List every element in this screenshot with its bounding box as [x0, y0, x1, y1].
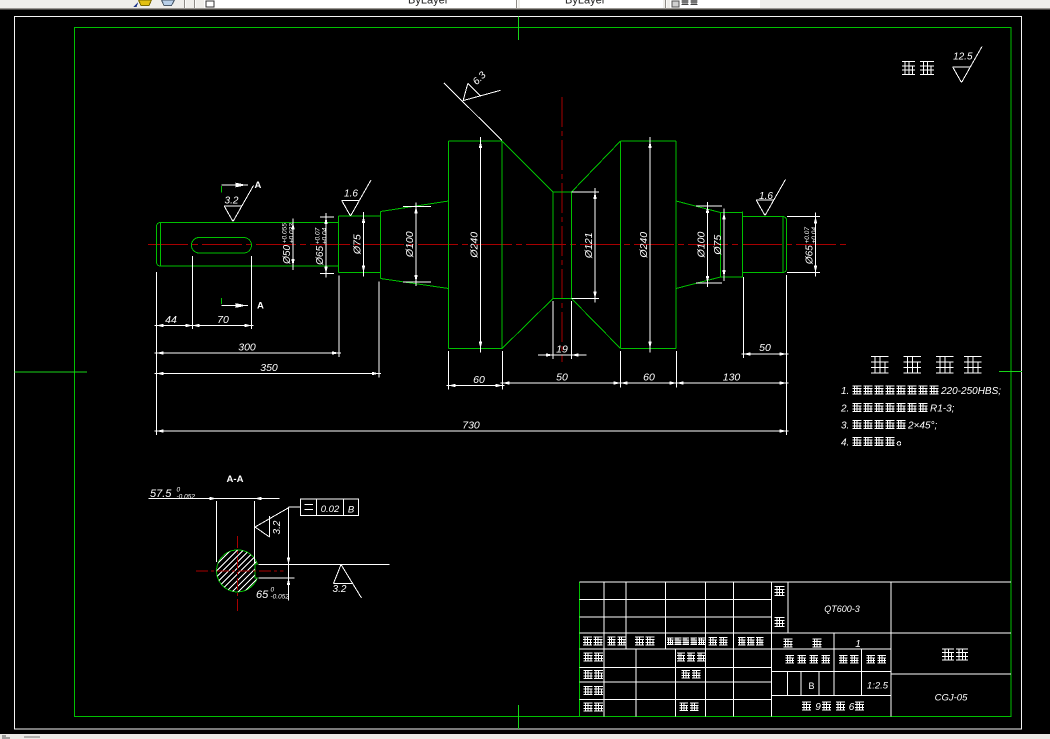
- extension line right disc left: [620, 351, 622, 388]
- step to right journal: [742, 212, 744, 278]
- title block label shuliang + value 1: [784, 639, 793, 647]
- svg-text:+0.04: +0.04: [321, 227, 328, 244]
- dimension phi65 left with tolerance: [320, 216, 334, 218]
- phi75 right section top: [721, 212, 743, 214]
- svg-text:ByLayer: ByLayer: [408, 0, 449, 7]
- surface finish 12.5 (other surfaces): [953, 66, 971, 68]
- svg-text:-0.052: -0.052: [177, 494, 196, 501]
- extension line neck right: [571, 301, 573, 359]
- right end corner arcs: [783, 217, 787, 221]
- toolbar separator: [184, 0, 186, 8]
- left disc right edge: [501, 141, 503, 349]
- section circle with keyway flat (green): [217, 550, 258, 592]
- neck right edge: [571, 192, 573, 299]
- technical requirements title: [871, 357, 889, 373]
- color combobox (cropped): [670, 0, 760, 8]
- dimension 19 neck: [538, 354, 587, 356]
- svg-text:12.5: 12.5: [953, 52, 973, 63]
- svg-text:44: 44: [165, 314, 177, 326]
- frame centering mark right: [999, 371, 1022, 373]
- linetype combobox (cropped): [520, 0, 663, 8]
- svg-text:Ø121: Ø121: [583, 232, 595, 259]
- svg-text:A-A: A-A: [227, 474, 244, 485]
- svg-text:Ø240: Ø240: [638, 232, 650, 259]
- dimension phi240 left: [480, 137, 482, 353]
- dimension 130: [675, 382, 789, 384]
- title block header texts: biaoji chushu fenqu gengai-wenjianhao qianming nianyueri: [583, 637, 592, 645]
- frame centering mark left: [15, 371, 88, 373]
- svg-text:B: B: [808, 681, 814, 691]
- dimension 44: [155, 325, 195, 327]
- svg-text:350: 350: [260, 362, 278, 374]
- geometric tolerance frame (symmetry 0.02 B): [301, 499, 359, 516]
- right disc top edge: [621, 140, 677, 142]
- right cone top slant: [676, 201, 721, 213]
- svg-text:Ø100: Ø100: [695, 231, 707, 258]
- svg-text:60: 60: [643, 372, 655, 384]
- svg-text:+0.04: +0.04: [811, 227, 818, 244]
- svg-text:3.: 3.: [841, 421, 849, 432]
- groove slant top-left: [502, 141, 553, 192]
- left cone top slant: [381, 201, 449, 212]
- groove vertical centerline (red): [561, 97, 563, 362]
- left disc left edge: [448, 141, 450, 349]
- svg-text:0.02: 0.02: [321, 504, 340, 515]
- title block stage-mark boxes: [787, 672, 789, 696]
- svg-text:+0.033: +0.033: [288, 223, 295, 243]
- svg-text:2.: 2.: [840, 404, 849, 415]
- toolbar icon: make object layer current (yellow diamond): [139, 0, 152, 6]
- status bar strip: [0, 734, 1050, 739]
- svg-text:70: 70: [217, 314, 229, 326]
- section mark A top: [221, 186, 223, 193]
- title block column lines upper zone: [603, 582, 605, 649]
- svg-text:1: 1: [855, 639, 861, 650]
- svg-text:Ø100: Ø100: [404, 231, 416, 258]
- svg-text:130: 130: [723, 372, 741, 384]
- extension line left end: [156, 272, 158, 435]
- left journal end face: [156, 227, 158, 263]
- dimension 70: [191, 325, 254, 327]
- shaft main centerline (red): [148, 244, 849, 246]
- left disc bottom edge: [449, 348, 503, 350]
- svg-text:Ø50: Ø50: [282, 245, 293, 265]
- title block sheet count: gong 9 zhang di 6 zhang: [802, 702, 811, 710]
- tolerance frame leader: [289, 506, 301, 508]
- title block label pizhun: [680, 703, 689, 711]
- groove slant bottom-right: [572, 299, 621, 349]
- dimension 350: [155, 373, 382, 375]
- title block row label zhitu: [584, 670, 593, 678]
- right journal bottom edge: [743, 272, 784, 274]
- surface finish 6.3 on groove (rotated, with leader): [444, 83, 502, 141]
- section mark A bottom: [221, 298, 223, 304]
- dimension 60 left disc: [447, 385, 505, 387]
- layer combobox (cropped): [204, 0, 516, 8]
- dimension phi100 right: [696, 205, 722, 207]
- right journal chamfer line: [782, 217, 784, 273]
- title block row label sheji: [584, 653, 593, 661]
- svg-text:1.6: 1.6: [344, 189, 358, 200]
- svg-text:A: A: [257, 301, 264, 312]
- svg-text:ByLayer: ByLayer: [565, 0, 606, 7]
- svg-text:Ø240: Ø240: [468, 232, 480, 259]
- extension line phi75L left: [338, 276, 340, 358]
- dimension 50 right journal: [742, 353, 789, 355]
- toolbar separator 2: [516, 0, 518, 8]
- surface finish 3.2 on left journal: [224, 205, 242, 207]
- surface finish 3.2 inverted on extension line: [334, 565, 342, 584]
- svg-text:57.5: 57.5: [150, 488, 172, 500]
- left cone bottom slant: [381, 279, 449, 289]
- phi75 left section top: [339, 215, 381, 217]
- svg-text:3.2: 3.2: [225, 196, 239, 207]
- title block label cailiao (vertical): [775, 586, 785, 595]
- svg-text:220-250HBS;: 220-250HBS;: [940, 386, 1001, 397]
- left disc top edge: [449, 140, 503, 142]
- left journal top edge: [161, 222, 339, 224]
- dimension phi50 with tolerance: [292, 219, 294, 271]
- toolbar icon: layers (blue diamond): [162, 0, 175, 6]
- keyway slot: [191, 238, 251, 254]
- dimension phi240 right: [649, 137, 651, 353]
- extension line keyway left: [192, 256, 194, 329]
- svg-text:300: 300: [238, 342, 256, 354]
- dimension phi75 left: [363, 212, 365, 277]
- toolbar strip (cropped AutoCAD object-properties toolbar): [0, 0, 1050, 8]
- right journal top edge: [743, 216, 784, 218]
- right journal end face: [786, 221, 788, 269]
- svg-text:Ø75: Ø75: [351, 234, 363, 255]
- phi75 left section bottom: [339, 272, 381, 274]
- extension line left disc right: [502, 351, 504, 390]
- svg-text:3.2: 3.2: [333, 584, 347, 595]
- right disc right edge: [675, 141, 677, 349]
- title block label zhongliang: [839, 655, 848, 663]
- dimension phi75 right: [723, 209, 725, 282]
- svg-text:B: B: [348, 505, 355, 516]
- title block row label gongyi: [584, 703, 593, 711]
- dimension 65 width across: [288, 507, 290, 601]
- phi75 right section bottom: [721, 276, 743, 278]
- svg-text:2×45°;: 2×45°;: [907, 421, 938, 432]
- text qi-yu (other): [902, 62, 915, 75]
- dimension phi121: [572, 191, 600, 193]
- title block row label shenhe: [584, 686, 593, 694]
- extension line neck left: [552, 301, 554, 359]
- title block label bili: [867, 655, 876, 663]
- svg-text:730: 730: [462, 420, 480, 432]
- right cone bottom slant: [676, 277, 721, 289]
- dimension 60 right disc: [619, 382, 679, 384]
- title block outer top line: [580, 581, 1012, 583]
- right cone end edge: [720, 213, 722, 278]
- toolbar separator 3: [665, 0, 667, 8]
- svg-text:Ø65: Ø65: [804, 245, 815, 265]
- svg-text:CGJ-05: CGJ-05: [935, 693, 968, 704]
- svg-text:Ø65: Ø65: [315, 246, 326, 266]
- svg-text:60: 60: [473, 374, 485, 386]
- svg-text:3.2: 3.2: [272, 520, 283, 534]
- step to phi75 section: [338, 216, 340, 273]
- title block label biaozhunhua: [677, 653, 685, 661]
- title block label shending: [682, 670, 691, 678]
- right disc bottom edge: [621, 348, 677, 350]
- svg-text:A: A: [255, 180, 262, 191]
- left cone start edge: [380, 212, 382, 279]
- extension line right end: [786, 275, 788, 435]
- dimension phi100 left: [403, 206, 431, 208]
- neck bottom edge: [553, 298, 572, 300]
- dimension phi65 right with tolerance: [787, 216, 820, 218]
- neck top edge: [553, 191, 572, 193]
- part name ya-gun (press roller): [942, 649, 954, 660]
- svg-text:QT600-3: QT600-3: [824, 604, 860, 614]
- title block column material: [771, 582, 773, 717]
- svg-text:1.6: 1.6: [759, 191, 773, 202]
- dimension 300: [155, 352, 342, 354]
- svg-text:1.: 1.: [841, 386, 849, 397]
- svg-text:0: 0: [271, 587, 275, 594]
- left journal bottom edge: [161, 265, 339, 267]
- title block column lines signature zone: [603, 649, 605, 717]
- dimension 57.5 keyway depth: [149, 498, 280, 500]
- svg-text:50: 50: [759, 342, 771, 354]
- svg-text:Ø75: Ø75: [712, 235, 724, 256]
- extension line phi75L right: [378, 282, 380, 378]
- svg-text:-0.052: -0.052: [271, 594, 290, 601]
- surface finish 1.6 on left phi75: [342, 200, 360, 202]
- surface finish 3.2 on keyway flat (rotated left): [269, 516, 271, 537]
- svg-text:6: 6: [849, 702, 855, 713]
- extension line right disc right: [676, 351, 678, 388]
- frame centering mark bottom: [518, 705, 520, 729]
- title block row lines: [580, 599, 772, 601]
- section centerline horizontal (red): [196, 570, 284, 572]
- title block label jieduanbiaoji: [786, 655, 795, 663]
- left end corner arcs: [157, 223, 162, 227]
- svg-text:0: 0: [177, 487, 181, 494]
- dimension 50 groove: [501, 382, 623, 384]
- title block quantity/scale columns: [833, 633, 835, 696]
- left journal chamfer line: [160, 223, 162, 267]
- extension line right journal left: [743, 277, 745, 358]
- svg-text:50: 50: [556, 372, 568, 384]
- extension line keyway right: [251, 256, 253, 329]
- svg-text:65: 65: [256, 589, 269, 601]
- svg-text:1:2.5: 1:2.5: [867, 681, 889, 692]
- surface finish 1.6 on right journal: [756, 199, 774, 201]
- svg-text:9: 9: [815, 702, 821, 713]
- svg-text:R1-3;: R1-3;: [930, 404, 955, 415]
- frame centering mark top: [518, 17, 520, 41]
- dimension 730: [155, 430, 789, 432]
- groove slant top-right: [572, 141, 621, 192]
- extension line left disc left: [448, 351, 450, 390]
- neck left edge: [552, 192, 554, 299]
- svg-text:4.: 4.: [841, 438, 849, 449]
- title block left edge (green): [579, 582, 581, 717]
- svg-text:19: 19: [556, 344, 568, 356]
- section centerline vertical (red): [237, 536, 239, 614]
- groove slant bottom-left: [502, 299, 553, 349]
- right disc left edge: [620, 141, 622, 349]
